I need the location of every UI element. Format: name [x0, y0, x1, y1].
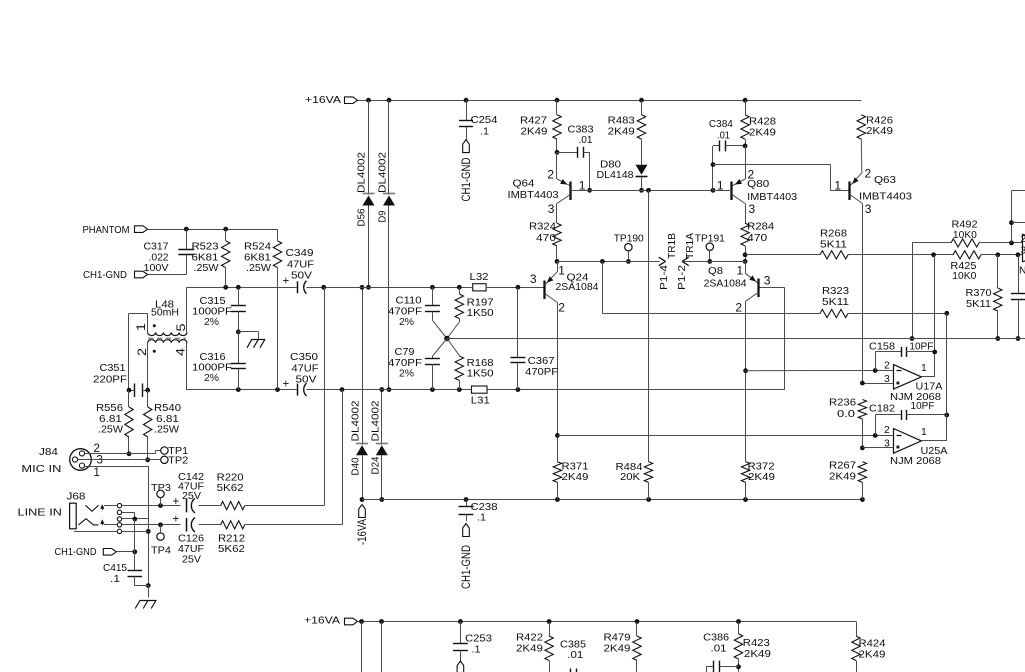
- net flag -16VA: [357, 505, 369, 546]
- svg-text:U17A: U17A: [916, 381, 943, 392]
- svg-text:1000PF: 1000PF: [192, 307, 232, 318]
- svg-text:R423: R423: [743, 638, 770, 649]
- svg-text:C315: C315: [200, 296, 226, 307]
- svg-text:MIC IN: MIC IN: [21, 464, 61, 475]
- node P1-2 TR1A: [677, 233, 696, 290]
- svg-text:Q64: Q64: [513, 179, 535, 190]
- resistor R427 2K49: [520, 100, 561, 155]
- capacitor C126 47UF 25V: [173, 514, 205, 566]
- test point TP2: [161, 455, 189, 466]
- svg-text:R268: R268: [820, 228, 847, 239]
- svg-text:R267: R267: [829, 461, 856, 472]
- resistor R168 1K50: [447, 339, 494, 390]
- svg-text:J68: J68: [67, 492, 86, 503]
- svg-text:L31: L31: [471, 395, 490, 406]
- wire line signal line: [104, 522, 342, 527]
- test point TP191: [695, 233, 725, 263]
- ground (C315/C316): [238, 332, 265, 348]
- svg-text:1: 1: [834, 178, 841, 192]
- svg-text:5K62: 5K62: [218, 544, 245, 555]
- svg-text:D24: D24: [371, 456, 382, 474]
- svg-text:6K81: 6K81: [244, 252, 271, 263]
- svg-text:25V: 25V: [182, 554, 201, 565]
- svg-text:IMBT4403: IMBT4403: [508, 190, 559, 201]
- svg-text:CH1-GND: CH1-GND: [461, 545, 473, 589]
- svg-text:R427: R427: [520, 116, 547, 127]
- resistor R479 2K49: [604, 622, 642, 672]
- node X junction: [444, 336, 450, 342]
- svg-text:2SA1084: 2SA1084: [556, 282, 599, 293]
- connector J84 MIC IN: [21, 443, 160, 479]
- svg-text:3: 3: [97, 455, 103, 467]
- svg-text:5K11: 5K11: [820, 240, 847, 251]
- resistor R426 2K49: [857, 115, 893, 172]
- svg-text:Q8: Q8: [708, 266, 723, 277]
- svg-text:DL4002: DL4002: [351, 400, 362, 441]
- svg-text:5K62: 5K62: [217, 483, 244, 494]
- svg-text:R428: R428: [749, 117, 776, 128]
- svg-text:2%: 2%: [399, 369, 414, 380]
- resistor R370 5K11: [966, 255, 1003, 341]
- svg-text:TP3: TP3: [151, 483, 171, 494]
- diode D9 DL4002: [378, 100, 395, 392]
- svg-text:DL4002: DL4002: [357, 152, 368, 193]
- svg-text:5K11: 5K11: [966, 299, 991, 310]
- svg-text:10PF: 10PF: [911, 401, 935, 412]
- svg-text:+: +: [283, 275, 290, 287]
- svg-text:C253: C253: [465, 634, 492, 645]
- svg-text:R479: R479: [604, 632, 631, 643]
- test point TP190: [614, 233, 644, 263]
- svg-text:1000PF: 1000PF: [192, 363, 232, 374]
- capacitor C367 470PF: [510, 287, 558, 389]
- capacitor C110 470PF 2%: [388, 287, 447, 338]
- svg-text:5K11: 5K11: [822, 297, 849, 308]
- inductor L32: [470, 272, 489, 291]
- svg-text:R424: R424: [859, 639, 886, 650]
- wire base bus: [570, 188, 732, 193]
- capacitor C350 47UF 50V: [283, 352, 319, 396]
- wire diode column A (lower): [361, 622, 363, 672]
- capacitor C158 10PF: [869, 342, 935, 371]
- svg-text:2K49: 2K49: [521, 126, 548, 137]
- capacitor C351 220PF: [93, 363, 150, 397]
- svg-text:20K: 20K: [620, 472, 640, 483]
- op-amp U17A NJM2068: [860, 255, 943, 403]
- capacitor C238 .1: [459, 499, 498, 589]
- svg-text:.25W: .25W: [194, 263, 219, 274]
- resistor R284 470: [741, 222, 775, 264]
- svg-text:C254: C254: [471, 115, 498, 126]
- svg-text:CH1-GND: CH1-GND: [55, 547, 97, 558]
- transistor Q64 IMBT4403: [508, 152, 590, 223]
- wire feedback bus (X line): [447, 338, 1025, 340]
- svg-text:470PF: 470PF: [525, 367, 558, 378]
- svg-text:2K49: 2K49: [562, 472, 589, 483]
- wire R268 feedback line: [745, 252, 1022, 257]
- test point TP1: [156, 446, 189, 457]
- svg-text:P1-2: P1-2: [677, 265, 688, 290]
- svg-text:2: 2: [735, 301, 742, 315]
- svg-text:+: +: [283, 379, 290, 391]
- connector J68 LINE IN: [18, 492, 122, 534]
- svg-text:R372: R372: [748, 462, 775, 473]
- svg-text:C349: C349: [286, 248, 314, 259]
- capacitor C142 47UF 25V: [173, 472, 205, 513]
- capacitor C349 47UF 50V: [283, 248, 315, 294]
- wire diode column B (lower): [381, 622, 383, 672]
- svg-text:2: 2: [865, 167, 872, 181]
- svg-text:C317: C317: [144, 241, 169, 252]
- svg-text:C79: C79: [395, 347, 415, 358]
- svg-text:3: 3: [749, 202, 756, 216]
- capacitor C385 .01: [560, 640, 586, 672]
- svg-text:.01: .01: [579, 135, 593, 146]
- svg-text:2: 2: [547, 168, 554, 182]
- svg-text:R197: R197: [467, 298, 494, 309]
- svg-text:.1: .1: [110, 574, 120, 585]
- svg-text:+16VA: +16VA: [305, 95, 341, 106]
- wire mid rail (upper): [187, 285, 545, 290]
- svg-text:TR1A: TR1A: [685, 233, 696, 259]
- resistor R556 6.81 .25W: [96, 390, 133, 456]
- wire Q63 base link: [713, 165, 850, 191]
- resistor R524 6K81 .25W: [244, 229, 282, 390]
- resistor R484 20K: [616, 190, 653, 499]
- svg-text:U25A: U25A: [921, 446, 948, 457]
- resistor R236 0.0: [829, 397, 867, 450]
- wire mid rail (lower): [187, 387, 785, 392]
- test point TP3: [151, 483, 171, 506]
- svg-text:.25W: .25W: [246, 263, 271, 274]
- wire top-right entry: [1009, 191, 1025, 243]
- svg-text:R284: R284: [747, 222, 774, 233]
- svg-text:2: 2: [558, 301, 565, 315]
- capacitor C317 .022 100V: [144, 229, 195, 274]
- svg-text:C351: C351: [100, 363, 126, 374]
- svg-text:TP191: TP191: [695, 233, 725, 244]
- svg-text:-16VA: -16VA: [357, 519, 369, 545]
- svg-text:2%: 2%: [204, 317, 219, 328]
- wire R212 riser: [342, 390, 344, 525]
- svg-text:+: +: [173, 496, 180, 508]
- resistor R371 2K49: [553, 433, 589, 499]
- svg-text:47UF: 47UF: [287, 259, 314, 270]
- op-amp (edge, partial): [1021, 234, 1025, 262]
- svg-text:.1: .1: [480, 127, 489, 138]
- svg-text:Q80: Q80: [747, 179, 769, 190]
- op-amp U25A NJM2068: [862, 313, 947, 467]
- svg-text:C238: C238: [471, 502, 498, 513]
- svg-text:IMBT4403: IMBT4403: [859, 191, 912, 202]
- svg-text:5: 5: [174, 323, 188, 331]
- svg-text:C386: C386: [703, 632, 729, 643]
- svg-text:P1-4: P1-4: [659, 265, 670, 290]
- resistor R268 5K11: [820, 228, 848, 259]
- svg-text:R556: R556: [96, 403, 123, 414]
- svg-text:10K0: 10K0: [953, 230, 977, 241]
- test point TP4: [151, 525, 171, 557]
- resistor R197 1K50: [447, 287, 494, 338]
- resistor R483 2K49: [608, 100, 646, 165]
- svg-text:R370: R370: [966, 288, 992, 299]
- capacitor C384 .01: [709, 119, 745, 190]
- wire R220 riser: [324, 287, 326, 505]
- transformer L48 50mH: [129, 287, 188, 390]
- svg-text:2K49: 2K49: [604, 643, 631, 654]
- svg-text:DL4002: DL4002: [378, 152, 389, 193]
- svg-text:6.81: 6.81: [99, 414, 122, 425]
- capacitor C316 1000PF 2%: [192, 332, 246, 390]
- svg-text:1: 1: [737, 264, 744, 278]
- svg-text:DL4002: DL4002: [371, 400, 382, 441]
- svg-text:470: 470: [536, 233, 556, 244]
- wire emitter bus (right): [682, 261, 745, 263]
- svg-text:C350: C350: [290, 352, 318, 363]
- svg-text:1K50: 1K50: [467, 308, 494, 319]
- resistor R212 5K62: [218, 521, 245, 555]
- svg-text:CH1-GND: CH1-GND: [83, 270, 127, 281]
- svg-text:2K49: 2K49: [516, 643, 543, 654]
- svg-text:C384: C384: [709, 119, 733, 130]
- resistor R492 10K0: [951, 219, 979, 247]
- wire jack c3 line: [122, 517, 149, 522]
- svg-text:2: 2: [135, 348, 149, 356]
- svg-text:2K49: 2K49: [744, 649, 771, 660]
- svg-text:3: 3: [1021, 246, 1025, 257]
- svg-text:R523: R523: [192, 241, 219, 252]
- svg-text:R324: R324: [529, 222, 556, 233]
- svg-text:CH1-GND: CH1-GND: [461, 158, 473, 202]
- svg-text:C383: C383: [568, 125, 594, 136]
- svg-text:2: 2: [884, 360, 890, 371]
- svg-text:D80: D80: [600, 160, 621, 171]
- diode D40 DL4002: [351, 285, 368, 502]
- wire +16VA rail (lower): [358, 619, 857, 624]
- wire U25A pin2 line: [557, 433, 893, 438]
- svg-text:0.0: 0.0: [837, 409, 855, 420]
- svg-text:+: +: [173, 514, 180, 526]
- svg-text:2SA1084: 2SA1084: [704, 279, 747, 290]
- svg-text:TP2: TP2: [168, 455, 188, 466]
- svg-text:.25W: .25W: [154, 425, 179, 436]
- resistor R220 5K62: [217, 473, 245, 510]
- svg-text:C158: C158: [869, 342, 895, 353]
- svg-text:C415: C415: [103, 563, 127, 574]
- node P1-4 TR1B: [659, 233, 678, 290]
- svg-text:R371: R371: [562, 462, 589, 473]
- resistor R424 2K49: [852, 622, 886, 672]
- svg-text:.1: .1: [477, 513, 486, 524]
- net flag +16VA (lower): [304, 616, 358, 627]
- svg-text:2K49: 2K49: [866, 126, 893, 137]
- svg-text:R540: R540: [154, 403, 181, 414]
- capacitor C386 .01: [703, 632, 731, 672]
- svg-text:220PF: 220PF: [93, 375, 127, 386]
- transistor Q80 IMBT4403: [713, 146, 798, 223]
- wire phantom: [148, 227, 278, 232]
- svg-text:2K49: 2K49: [749, 127, 776, 138]
- svg-text:2K49: 2K49: [608, 126, 635, 137]
- capacitor C383 .01: [557, 125, 594, 193]
- capacitor C253 .1: [453, 622, 492, 672]
- resistor R540 6.81 .25W: [144, 390, 182, 462]
- resistor R428 2K49: [741, 100, 776, 148]
- wire U17A pin2 line: [746, 368, 894, 373]
- svg-text:470: 470: [747, 233, 767, 244]
- svg-text:NJM 2068: NJM 2068: [890, 456, 941, 467]
- svg-text:1: 1: [558, 264, 565, 278]
- net flag +16VA: [305, 95, 358, 106]
- svg-text:50V: 50V: [291, 271, 312, 282]
- capacitor C254 .1: [459, 100, 498, 201]
- svg-text:TP4: TP4: [151, 545, 171, 556]
- svg-text:3: 3: [548, 202, 555, 216]
- svg-text:1: 1: [717, 178, 724, 192]
- wire Q8 base drop: [759, 288, 785, 390]
- capacitor (edge): [1011, 255, 1025, 341]
- svg-text:TP190: TP190: [614, 233, 644, 244]
- svg-text:C367: C367: [528, 356, 555, 367]
- svg-text:C182: C182: [869, 403, 895, 414]
- svg-text:470PF: 470PF: [388, 306, 422, 317]
- svg-text:50V: 50V: [296, 375, 317, 386]
- svg-text:R426: R426: [866, 115, 893, 126]
- svg-text:3: 3: [530, 272, 537, 286]
- svg-text:10PF: 10PF: [909, 342, 933, 353]
- diode D24 DL4002: [371, 387, 388, 502]
- svg-text:2K49: 2K49: [829, 471, 856, 482]
- svg-text:PHANTOM: PHANTOM: [83, 225, 130, 236]
- svg-text:C110: C110: [396, 296, 422, 307]
- svg-text:10K0: 10K0: [952, 271, 976, 282]
- svg-text:2: 2: [884, 425, 890, 436]
- svg-text:R492: R492: [952, 219, 978, 230]
- svg-text:4: 4: [173, 348, 187, 356]
- wire R323 feedback line: [602, 261, 949, 315]
- svg-text:IMBT4403: IMBT4403: [747, 192, 797, 203]
- svg-text:LINE IN: LINE IN: [18, 508, 63, 519]
- svg-text:3: 3: [884, 439, 890, 450]
- svg-text:R236: R236: [829, 397, 856, 408]
- svg-text:3: 3: [764, 273, 771, 287]
- svg-text:6K81: 6K81: [192, 252, 219, 263]
- svg-text:N: N: [1019, 266, 1025, 277]
- svg-text:470PF: 470PF: [388, 358, 422, 369]
- wire XLR shield drop: [146, 466, 151, 598]
- svg-text:R524: R524: [244, 241, 271, 252]
- wire emitter bus (left): [557, 259, 660, 264]
- svg-text:6.81: 6.81: [156, 414, 179, 425]
- inductor L31: [471, 386, 490, 406]
- svg-text:TR1B: TR1B: [667, 233, 678, 259]
- capacitor C415 .1: [103, 519, 148, 586]
- svg-text:2K49: 2K49: [748, 472, 775, 483]
- svg-text:1: 1: [134, 323, 148, 331]
- svg-text:Q63: Q63: [874, 175, 896, 186]
- wire jack c2 stub: [122, 512, 135, 519]
- wire jack sleeve line: [74, 531, 148, 533]
- svg-text:1: 1: [921, 427, 927, 438]
- svg-text:R483: R483: [608, 116, 635, 127]
- capacitor C315 1000PF 2%: [192, 287, 246, 334]
- transistor Q24 2SA1084: [530, 261, 599, 435]
- svg-text:47UF: 47UF: [292, 364, 319, 375]
- svg-text:J84: J84: [39, 447, 58, 458]
- svg-text:C316: C316: [200, 352, 226, 363]
- svg-text:.01: .01: [567, 650, 583, 661]
- svg-text:DL4148: DL4148: [597, 170, 634, 181]
- svg-text:3: 3: [884, 374, 890, 385]
- svg-text:.022: .022: [149, 252, 169, 263]
- svg-text:R323: R323: [822, 286, 849, 297]
- svg-text:.01: .01: [717, 131, 730, 142]
- resistor R324 470: [529, 222, 561, 264]
- wire mic signal line: [104, 503, 324, 508]
- wire R492 line: [910, 241, 1023, 341]
- svg-text:.01: .01: [711, 644, 727, 655]
- svg-text:2%: 2%: [204, 373, 219, 384]
- svg-text:1K50: 1K50: [467, 369, 494, 380]
- wire +16VA rail: [358, 98, 862, 103]
- svg-text:2: 2: [1021, 234, 1025, 245]
- capacitor C79 470PF 2%: [388, 339, 447, 390]
- capacitor C182 10PF: [869, 401, 949, 435]
- resistor R323 5K11: [820, 286, 849, 318]
- svg-text:25V: 25V: [182, 491, 201, 502]
- svg-text:3: 3: [865, 202, 872, 216]
- resistor R523 6K81 .25W: [192, 229, 230, 287]
- ground (input jacks): [135, 600, 156, 609]
- svg-text:100V: 100V: [144, 263, 169, 274]
- svg-text:47UF: 47UF: [178, 544, 204, 555]
- resistor R422 2K49: [516, 622, 553, 672]
- net flag CH1-GND (upper left): [83, 270, 186, 281]
- svg-text:L32: L32: [470, 272, 489, 283]
- resistor R425 10K0: [950, 251, 981, 283]
- svg-text:+16VA: +16VA: [304, 616, 340, 627]
- net flag PHANTOM: [83, 225, 148, 236]
- resistor R267 2K49: [829, 461, 867, 500]
- svg-text:2%: 2%: [399, 317, 414, 328]
- transistor Q63 IMBT4403: [834, 167, 912, 383]
- svg-text:D56: D56: [357, 208, 368, 226]
- diode D80 DL4148: [597, 160, 648, 193]
- svg-text:D40: D40: [351, 457, 362, 475]
- svg-text:1: 1: [94, 467, 100, 479]
- svg-text:.25W: .25W: [98, 425, 123, 436]
- resistor R423 2K49: [732, 622, 772, 672]
- resistor R372 2K49: [741, 462, 775, 500]
- wire -16VA rail: [362, 497, 865, 502]
- svg-text:50mH: 50mH: [151, 308, 179, 319]
- svg-text:2K49: 2K49: [859, 650, 886, 661]
- transistor Q8 2SA1084: [704, 261, 771, 461]
- svg-text:R422: R422: [516, 632, 543, 643]
- svg-text:D9: D9: [378, 210, 389, 222]
- svg-text:R168: R168: [467, 358, 494, 369]
- svg-text:1: 1: [921, 363, 927, 374]
- net flag CH1-GND (lower left): [55, 547, 138, 558]
- svg-text:.1: .1: [472, 644, 481, 655]
- diode D56 DL4002: [357, 100, 375, 289]
